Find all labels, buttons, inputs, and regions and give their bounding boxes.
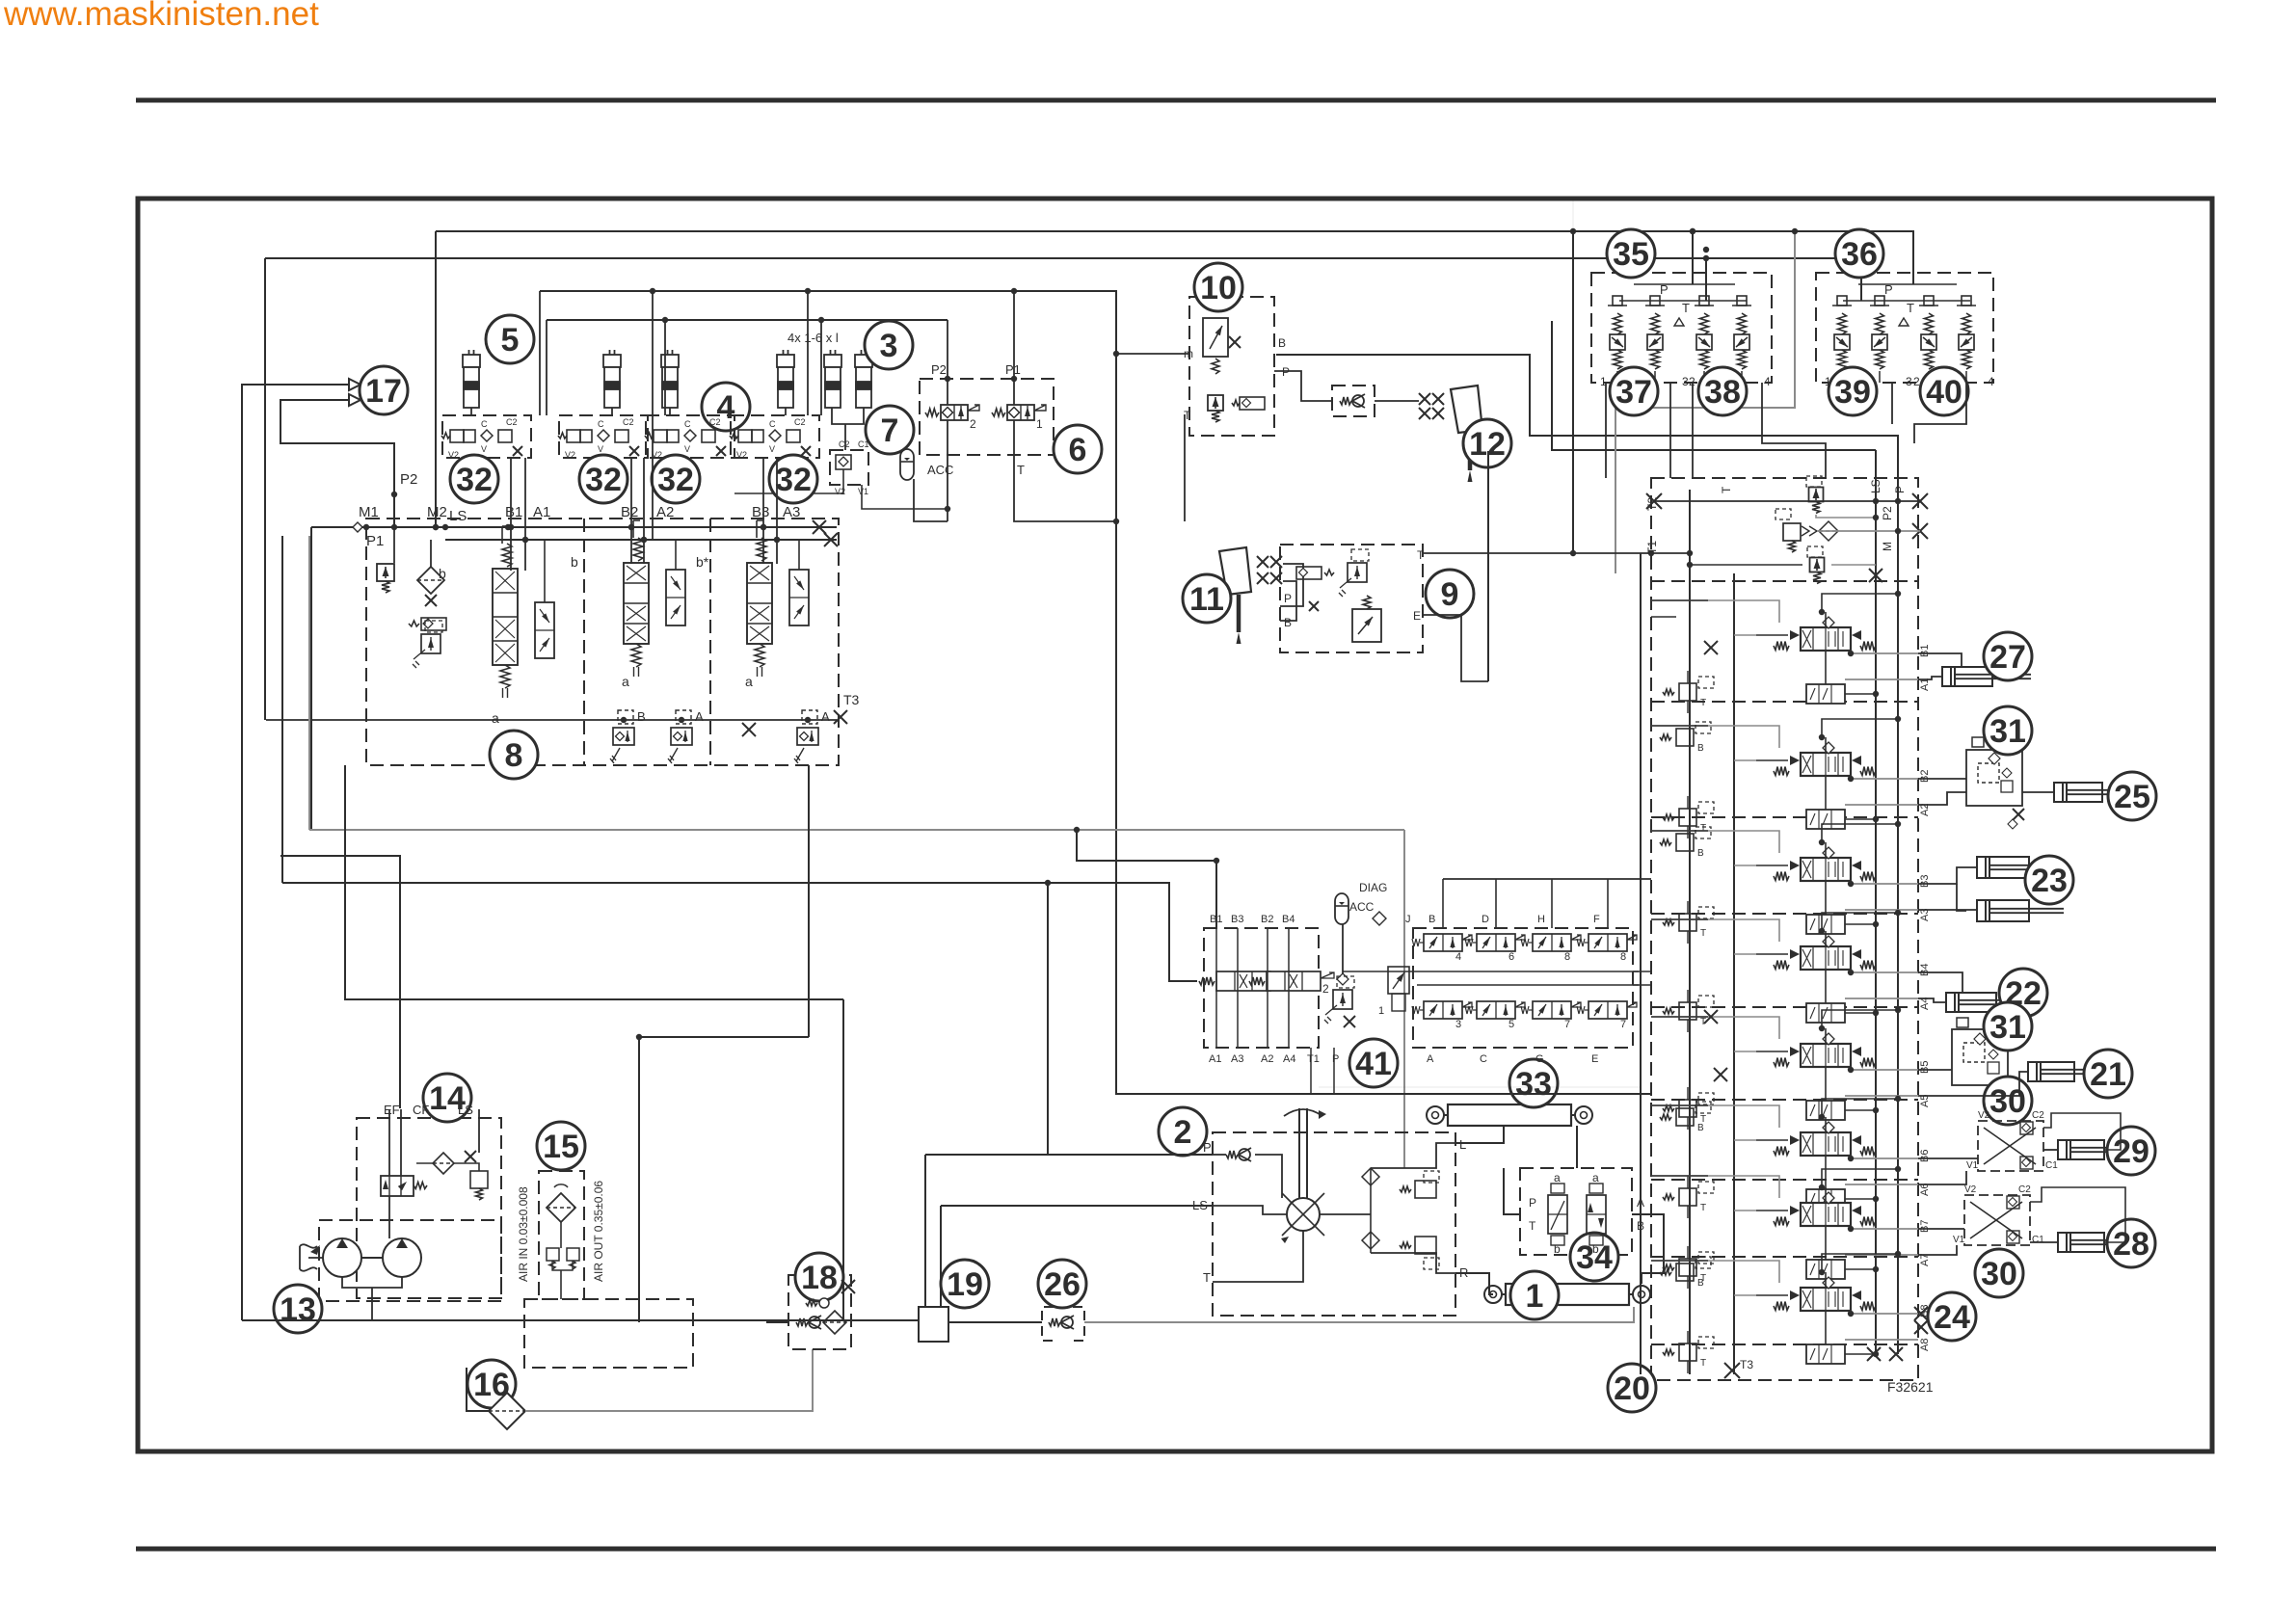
wire R to cylinder 1 [1455,1273,1493,1294]
svg-text:32: 32 [456,462,493,498]
wire 34 A to cylinder 1 [1632,1214,1664,1284]
relief item 14 [470,1171,488,1188]
cylinder item 23 upper [1977,857,2029,878]
svg-text:B3: B3 [1919,875,1931,888]
svg-text:P: P [1529,1196,1536,1210]
rail T left item 20 [1689,490,1691,1374]
balancing valve block item 31 (lower) [1952,1029,2008,1085]
tank gallery line item 8 [266,719,837,721]
svg-text:4: 4 [1988,375,1994,388]
pilot reducing valve item 39 [1872,334,1887,350]
extra reducing valve item 20 [1676,729,1694,746]
item41 T1 drop [1310,1048,1312,1094]
svg-text:T3: T3 [1740,1358,1753,1371]
section 2 reducing valve item 20 [1679,809,1696,826]
svg-text:26: 26 [1044,1266,1081,1303]
item 20 section divider y=1304 [1651,1256,1918,1258]
cylinder item 28 [2058,1233,2104,1252]
riser pipe cluster 4 [807,291,809,415]
directional valve item 9 [1352,609,1381,642]
svg-text:20: 20 [1614,1370,1650,1407]
item callout 2 [1159,1107,1207,1156]
coupling xx marks item 11 [1257,556,1268,568]
item callout 20 [1608,1364,1656,1412]
svg-text:4: 4 [1455,951,1461,963]
wire item10 T drop [1184,414,1186,521]
svg-text:32: 32 [585,462,622,498]
solenoid valve 1 item 6 [1007,405,1034,420]
4/3 solenoid valve 41-left-1 [1216,971,1270,991]
wire CF down [400,1109,402,1176]
svg-text:V2: V2 [1964,1184,1977,1195]
wire item 9 E out [1423,615,1488,681]
pilot valve cluster item 35 [1591,273,1772,383]
svg-text:V2: V2 [1978,1110,1990,1121]
wire return into 18 [766,1321,788,1323]
svg-text:P2: P2 [400,471,417,488]
port M plug [1912,523,1928,539]
bottom rule [136,1547,2216,1552]
left rail wire x275 [264,258,266,720]
svg-text:V: V [684,444,690,454]
wire LS down [478,1109,480,1153]
priority valve item 14 [381,1176,414,1196]
svg-text:T: T [1700,823,1706,834]
pilot relief item 8 [421,634,441,653]
svg-text:5: 5 [1508,1019,1514,1030]
return filter block item 18 [788,1275,851,1349]
pilot reducing valve item 39 [1834,334,1850,350]
svg-text:B: B [1278,336,1286,350]
svg-text:V2: V2 [565,450,575,460]
main port bus line [311,526,837,528]
item callout 32 [652,455,700,503]
svg-text:35: 35 [1613,236,1649,273]
svg-text:6: 6 [1508,951,1514,963]
svg-text:7: 7 [1564,1019,1570,1030]
priority valve block item 14 [357,1118,501,1298]
pump suction link [342,1277,402,1288]
svg-text:7: 7 [1620,1019,1626,1030]
drop item38 port4 [1762,383,1826,478]
LS relief item 20 [1810,558,1825,572]
long grey wire LS to steering [309,829,1404,831]
svg-text:P1: P1 [1005,362,1021,377]
double check block item 30 (lower) [1964,1195,2030,1245]
wire branch down to item 35 T [1705,258,1707,301]
svg-text:P2: P2 [931,362,947,377]
svg-text:B: B [1697,1278,1704,1289]
riser x560 to cluster [539,291,541,415]
svg-text:B: B [1697,848,1704,859]
item35 T rail [1619,300,1747,302]
svg-text:b*: b* [696,554,709,570]
drop item38 port2 [1692,383,1694,478]
steering shock relief 2 [1415,1237,1436,1254]
pump 2 item 13 [383,1238,421,1277]
svg-text:C2: C2 [839,439,850,449]
compensator riser 3 [798,540,800,570]
cylinder actuator (top row) at x=896 [855,350,872,408]
svg-text:B4: B4 [1919,964,1931,976]
svg-text:T1: T1 [1307,1053,1320,1065]
item callout 39 [1829,367,1877,415]
svg-text:T: T [1907,301,1914,315]
item41 top bus to bank [1443,878,1651,880]
wire filter to relief [454,1163,479,1171]
check valve item 26 [1049,1318,1060,1326]
pressure compensator section 1 [535,602,554,658]
pilot valve section 8 item 20 [1806,1344,1845,1364]
svg-text:T: T [1203,1270,1211,1285]
port relief A3 item 8 [797,728,818,745]
wire B2 drop [630,458,632,564]
inlet relief valve item 8 [377,564,394,581]
wire A6 to block 30 [1918,1171,1966,1184]
pilot valve port tick [1616,371,1618,383]
vertical rail x1632 [1572,231,1574,553]
item41 T rail [1417,984,1639,986]
svg-text:3: 3 [880,328,898,364]
riser pipe cluster 4b [820,320,822,415]
rail P item 20 [1897,436,1899,1354]
pilot reducing valve item 38 [1696,334,1712,350]
item 20 section divider y=1045 [1651,1006,1918,1008]
pilot valve section 4 item 20 [1806,1003,1845,1023]
svg-text:a: a [492,710,499,726]
svg-text:a: a [1554,1171,1561,1184]
lock valve block item 32 at x=580 [559,415,648,458]
svg-text:C2: C2 [623,417,634,427]
4/3 solenoid valve 41-left-2 [1267,971,1321,991]
drop item40 [1914,383,1966,443]
svg-text:B3: B3 [1231,914,1243,925]
item callout 38 [1698,367,1747,415]
svg-text:J: J [1405,914,1411,925]
svg-text:V1: V1 [1966,1160,1979,1171]
wire item 3 pair down [844,424,846,450]
wire T return top rail to item 36 [265,258,1861,301]
changeover solenoid a item 34 [1548,1195,1567,1234]
wire valve1 T to tee [1014,420,1116,521]
coupling xx marks item 12 [1419,393,1430,405]
wire V1 to P2 drop [862,485,948,509]
pilot valve section 5 item 20 [1806,1101,1845,1120]
svg-text:11: 11 [1189,581,1224,618]
item callout 16 [467,1360,516,1408]
item callout 34 [1570,1233,1618,1281]
svg-text:P: P [1282,365,1290,379]
cylinder item 22 [1946,993,1996,1012]
item36 P rail [1858,283,1957,285]
cylinder item 27 [1942,667,1992,686]
port T2 plug [1646,493,1662,509]
port P2 [1912,493,1928,509]
wire 19 to check 26 [948,1321,1042,1323]
svg-text:18: 18 [801,1260,838,1296]
wire valve2 to ACC port [947,420,948,521]
steering check 1 [1362,1168,1379,1185]
drop item39 [1891,383,1893,424]
svg-text:P: P [1203,1140,1212,1155]
item callout 4 [702,383,750,431]
item 20 section divider y=728 [1651,701,1918,703]
DIAG test point item 41 [1373,912,1386,925]
item callout 36 [1835,229,1883,278]
svg-text:ACC: ACC [927,463,953,477]
solenoid valve 2 item 6 [941,405,968,420]
wire P1 into inlet [393,527,395,563]
item callout 28 [2107,1219,2155,1267]
wire jog to pump CF [280,856,400,1108]
wire item8 tank drop [345,765,843,999]
wire joystick 11 to item 9 B [1280,581,1296,621]
svg-text:AIR IN 0.03±0.008: AIR IN 0.03±0.008 [517,1186,530,1282]
wire P2 into valve 2 [947,320,948,405]
wire B1 drop [510,458,512,571]
joystick item 11 [1219,547,1251,595]
svg-text:EF: EF [384,1103,400,1117]
wire cylinder 33 to valve 34 [1576,1126,1578,1168]
svg-text:T: T [1682,301,1690,315]
svg-text:13: 13 [280,1291,316,1328]
wire P to steering [925,1154,1213,1156]
solenoid valve item 41 bottom 2 [1477,1001,1515,1019]
svg-text:b: b [1554,1242,1561,1256]
extra reducing valve item 20 [1676,834,1694,851]
item41 port line vertical [1215,928,1217,1048]
item callout 13 [274,1285,322,1333]
changeover valve block item 34 [1520,1168,1632,1255]
item41 port line vertical [1267,928,1268,1048]
item41 port line vertical [1237,928,1239,1048]
solenoid valve item 9 [1296,567,1322,579]
relief 2 item 41 [1333,990,1352,1009]
wire B7 to block 30 lower [1918,1228,1964,1230]
wire branch to item41 B1 [1077,830,1216,928]
wire A3 to cylinders 23 [1918,909,1977,911]
svg-text:3: 3 [1455,1019,1461,1030]
left outer rail to T3 [1640,553,1642,1374]
pump suction drop [371,1288,373,1320]
wire EF down [388,1109,390,1176]
check valve to joystick 12 [1340,397,1351,405]
item callout 19 [941,1260,989,1308]
svg-text:2: 2 [1174,1114,1192,1151]
main return line to item 19 [242,1319,919,1321]
svg-text:A2: A2 [1261,1053,1273,1065]
item callout 37 [1610,367,1658,415]
wire A2 to block 31 [1918,792,1966,805]
steering T internal [1213,1231,1303,1282]
svg-text:1: 1 [1825,375,1831,388]
wire L3 pilot supply to item 10/6 tee [540,291,1116,521]
cylinder actuator (top row) at x=815 [777,350,794,408]
wire P supply top rail to item 36 [436,231,1913,284]
main spool section 2 item 8 [624,563,649,644]
svg-text:6: 6 [1069,432,1087,468]
check valve box after item 10 [1332,386,1375,416]
pilot valve port tick [1741,371,1743,383]
wire valve to pump1 [388,1196,390,1238]
wire item10 P to check valve [1274,371,1332,401]
svg-text:D: D [1482,914,1489,925]
svg-text:P: P [1284,592,1292,605]
drop item37 port1 [1605,383,1607,478]
svg-text:4x 1-6 x l: 4x 1-6 x l [788,331,839,345]
bypass check item 18 [796,1318,808,1326]
cylinder actuator (top row) at x=489 [463,350,480,408]
item callout 14 [423,1074,471,1122]
steering cylinder item 33 [1448,1104,1571,1126]
section feed stub [1651,830,1708,832]
svg-text:27: 27 [1989,639,2026,676]
svg-text:37: 37 [1615,374,1652,411]
wire A5 to cylinder 21 [1918,1072,2028,1096]
wire L to cylinder 33 [1455,1126,1504,1143]
steering cylinder item 1 [1506,1284,1629,1305]
wire L4 to item 6 P2 [547,319,948,321]
section 1 reducing valve item 20 [1679,683,1696,701]
wire T rail down to item 41 [1115,521,1117,928]
svg-text:F32621: F32621 [1887,1379,1934,1395]
svg-text:32: 32 [657,462,694,498]
section 4 reducing valve item 20 [1679,1002,1696,1020]
item callout 1 [1510,1271,1559,1319]
control valve block item 8 boundary [366,519,839,765]
wire 19 up to steering P [924,1155,926,1307]
section feed stub [1651,1175,1708,1177]
balancing valve block item 31 (upper) [1966,750,2022,806]
item 20 section divider y=603 [1651,580,1918,582]
breather item 15 box [539,1171,584,1299]
wire B4 to cylinder 22 [1918,972,1962,993]
svg-text:24: 24 [1934,1299,1970,1336]
svg-text:A4: A4 [1283,1053,1295,1065]
svg-text:31: 31 [1989,1009,2026,1046]
quick coupling arrows item 17 [339,379,360,406]
item 20 section divider y=1141 [1651,1099,1918,1101]
svg-text:V2: V2 [448,450,459,460]
extra reducing valve item 20 [1676,1108,1694,1126]
section feed stub [1651,918,1708,920]
check block below item 3 (C2 C1) [830,450,868,485]
svg-text:B: B [637,709,646,724]
item callout 32 [450,455,498,503]
pilot reducing valve item 20 inlet [1783,523,1801,541]
drop x1087 to steering P line [1047,883,1049,1155]
steering column item 2 [1298,1108,1300,1198]
accumulator item 7 [900,449,914,480]
svg-text:V1: V1 [858,487,868,496]
inlet line T2-P2 [1654,500,1920,502]
pump 1 item 13 [323,1238,361,1277]
item callout 6 [1054,425,1102,473]
svg-text:8: 8 [505,737,523,774]
main proportional spool section 1 item 20 [1801,627,1851,651]
pilot valve section 1 item 20 [1806,684,1845,704]
triangle gauge marks item 35/36 [1674,318,1909,326]
pilot valve port tick [1703,371,1705,383]
svg-text:T: T [1417,548,1425,562]
svg-text:C2: C2 [709,417,721,427]
svg-text:19: 19 [947,1266,983,1303]
svg-text:T: T [1700,1358,1706,1369]
main proportional spool section 8 item 20 [1801,1288,1851,1311]
wire item 9 T to right block [1423,552,1651,554]
item 20 section divider y=948 [1651,913,1918,915]
svg-text:A8: A8 [1919,1339,1931,1351]
svg-text:17: 17 [365,373,402,410]
inlet filter item 20 [1819,521,1838,541]
svg-text:C: C [684,419,691,429]
changeover solenoid b item 34 [1587,1195,1606,1234]
acc drop item 41 [1342,924,1344,973]
svg-text:5: 5 [501,322,520,359]
wire A2 drop [643,458,645,564]
svg-text:L: L [1459,1137,1466,1152]
item callout 7 [866,406,914,454]
wire cylinder3 to valve box 32c [669,408,671,415]
svg-text:25: 25 [2114,779,2150,815]
svg-text:C2: C2 [2018,1184,2031,1195]
wire B3 to cylinders 23 [1918,867,1977,884]
svg-text:29: 29 [2113,1133,2149,1170]
main proportional spool section 2 item 20 [1801,753,1851,776]
port relief B2 item 8 [613,728,634,745]
solenoid valve item 41 bottom 1 [1424,1001,1462,1019]
svg-text:a: a [1592,1171,1599,1184]
main proportional spool section 4 item 20 [1801,946,1851,970]
wire 34 P from L [1504,1168,1520,1214]
item 8 section divider 1 [583,519,585,765]
svg-text:B1: B1 [1919,645,1931,657]
svg-text:P: P [1893,486,1907,493]
item41 P rail [1343,971,1639,972]
pilot valve section 7 item 20 [1806,1260,1845,1279]
breather filter item 15 [547,1193,575,1222]
drop from item8 x839 [808,765,810,1037]
wire block30 to cyl 29 far side [2043,1113,2121,1150]
svg-text:23: 23 [2031,863,2068,899]
lock valve block item 32 at x=459 [442,415,531,458]
junction manifold item 19 [919,1307,948,1342]
item41 solenoid top riser [1607,879,1609,928]
cylinder actuator (top row) at x=635 [603,350,621,408]
item41 solenoid top riser [1551,879,1553,928]
svg-text:b: b [1592,1242,1599,1256]
secondary LS bus line [445,539,837,541]
svg-text:LS: LS [458,1103,473,1117]
grey wire cluster 37 ports to bank [1615,231,1795,573]
inlet relief item 20 [1809,488,1824,502]
wire A7 to block 30 lower [1918,1245,1957,1255]
gerotor item 2 [1287,1198,1320,1231]
svg-text:DIAG: DIAG [1359,881,1387,894]
solenoid valve item 41 top 4 [1589,934,1627,951]
svg-text:P2: P2 [1881,506,1894,520]
svg-text:38: 38 [1704,374,1741,411]
item callout 11 [1183,574,1231,623]
rail mid item 20 [1733,573,1735,1374]
pilot reducing valve item 37 [1647,334,1663,350]
main proportional spool section 7 item 20 [1801,1203,1851,1226]
section 8 reducing valve item 20 [1679,1344,1696,1361]
svg-text:31: 31 [1989,713,2026,750]
svg-text:V: V [769,444,775,454]
svg-text:AIR OUT 0.35±0.06: AIR OUT 0.35±0.06 [592,1181,605,1282]
svg-text:30: 30 [1981,1256,2017,1292]
